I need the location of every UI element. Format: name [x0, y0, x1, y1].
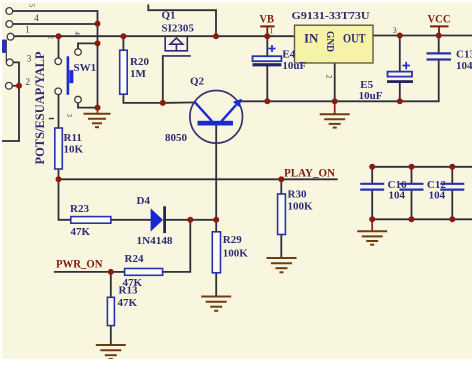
- node regulator pin2 on emitter rail: [332, 98, 338, 104]
- wire E5 bottom lead: [399, 83, 401, 101]
- wire C16 top lead: [371, 167, 373, 183]
- capacitor C14 (clipped at right edge): [440, 184, 464, 190]
- wire R23 right to D4 anode: [111, 219, 151, 221]
- svg-text:IN: IN: [304, 30, 319, 45]
- wire vertical bus to ground: [97, 24, 99, 109]
- wire C12 bottom lead: [411, 190, 413, 219]
- wire jack pin2 stub: [12, 85, 19, 87]
- capacitor E5 10uF electrolytic: [359, 62, 413, 102]
- Q1 substrate arrow head: [170, 38, 183, 44]
- ground stem below R13: [110, 344, 112, 345]
- svg-text:100K: 100K: [288, 201, 314, 213]
- svg-text:3: 3: [27, 54, 32, 64]
- svg-text:2: 2: [25, 78, 30, 88]
- svg-text:4: 4: [73, 32, 81, 36]
- node C12 top rail: [409, 164, 415, 170]
- svg-text:R30: R30: [288, 189, 307, 201]
- wire C13 top lead: [438, 36, 440, 53]
- svg-text:47K: 47K: [118, 297, 138, 309]
- wire SW1 lower-right pin to bus: [78, 103, 98, 108]
- diode D4 1N4148: [137, 195, 173, 247]
- node R30 top on PLAY_ON wire: [278, 176, 284, 182]
- wire R13 bottom to ground: [110, 326, 112, 344]
- Q1 substrate arrow stem: [175, 44, 177, 51]
- Q2 emitter arrow head: [233, 99, 242, 107]
- svg-text:OUT: OUT: [343, 31, 366, 45]
- node E5 bottom on emitter rail: [397, 98, 403, 104]
- Q1 channel bar: [164, 50, 188, 52]
- capacitor C16 104: [360, 179, 407, 202]
- Q2 base bar: [198, 121, 234, 126]
- wire C14 bottom lead: [451, 190, 453, 219]
- resistor R23: [70, 203, 111, 238]
- node C13 top on VCC rail: [436, 33, 442, 39]
- svg-text:POTS/ESUAP/YALP: POTS/ESUAP/YALP: [33, 51, 47, 164]
- wire regulator pin3 rail to VCC edge: [373, 35, 472, 37]
- ground stem below SW bus: [97, 108, 99, 114]
- wire pin4 to vertical bus: [13, 11, 98, 24]
- svg-text:PLAY_ON: PLAY_ON: [284, 166, 335, 180]
- node pin4/pin1 bus: [95, 21, 101, 27]
- power port VB: [260, 11, 275, 26]
- node Q1 drain hook on main rail: [213, 33, 219, 39]
- regulator U1 G9131-33T73U: [270, 10, 397, 79]
- node R20 top on main rail: [120, 33, 126, 39]
- wire PWR_ON stub: [55, 271, 111, 273]
- ground below SW bus: [84, 114, 111, 127]
- wire Q1 drain hook from top: [148, 5, 216, 36]
- svg-text:R20: R20: [130, 56, 149, 68]
- resistor R11: [49, 114, 84, 170]
- node R11 bottom / PLAY_ON: [56, 176, 62, 182]
- svg-text:1M: 1M: [130, 68, 147, 80]
- wire R11 bottom to node: [58, 169, 60, 179]
- node SW1 top on main rail: [56, 33, 62, 39]
- wire main rail pin3 to regulator IN: [14, 35, 295, 37]
- wire Q1 gate down: [162, 56, 164, 103]
- wire gate node to Q2 collector: [163, 101, 196, 104]
- wire pin1 horizontal: [13, 23, 98, 25]
- resistor R29: [212, 232, 248, 273]
- svg-text:Q2: Q2: [190, 75, 205, 87]
- capacitor E4 10uF electrolytic: [253, 45, 307, 72]
- wire R30 bottom to ground: [280, 235, 282, 258]
- wire Q2 base vertical: [215, 125, 217, 219]
- svg-text:VB: VB: [260, 11, 275, 25]
- wire PLAY_ON horizontal: [59, 178, 337, 180]
- node E4 bottom on emitter rail: [264, 98, 270, 104]
- svg-text:104: 104: [429, 190, 446, 202]
- switch SW1: [47, 32, 97, 103]
- wire node to R29 top: [215, 220, 217, 232]
- power port VCC: [428, 12, 451, 27]
- ground below regulator pin2: [320, 101, 350, 127]
- node Q1 gate / R20: [160, 100, 166, 106]
- svg-text:1N4148: 1N4148: [137, 235, 173, 247]
- wire R29 bottom to ground: [215, 273, 217, 296]
- svg-text:D4: D4: [137, 195, 151, 207]
- node PWR_ON / R13: [108, 269, 114, 275]
- wire SW1 lower-left pin to R11: [58, 95, 60, 129]
- R11 rotated pin digit 1 (dash): [49, 118, 54, 120]
- ground below R29: [201, 297, 231, 311]
- wire C14 top lead: [451, 167, 453, 183]
- svg-text:R29: R29: [223, 234, 242, 246]
- svg-text:10uF: 10uF: [282, 60, 306, 72]
- wire E5 top lead: [399, 36, 401, 72]
- wire C16 bottom lead: [371, 190, 373, 219]
- svg-text:10K: 10K: [64, 143, 84, 155]
- wire SW1 upper-right pin to bus: [78, 43, 98, 48]
- node D4 cathode / R24: [187, 217, 193, 223]
- svg-text:Q1: Q1: [162, 10, 176, 22]
- resistor R24: [123, 253, 163, 289]
- wire regulator pin2 down: [334, 63, 336, 101]
- connector body bracket at left edge: [2, 40, 6, 54]
- node SW1 right-bottom on bus: [95, 105, 101, 111]
- svg-text:100K: 100K: [223, 247, 249, 259]
- resistor R20: [120, 50, 150, 94]
- svg-text:5: 5: [28, 4, 36, 8]
- node VB/E4 on main rail: [264, 33, 270, 39]
- svg-text:8050: 8050: [165, 132, 188, 144]
- svg-text:104: 104: [456, 60, 472, 72]
- wire VCC stem: [438, 26, 440, 35]
- wire E4 top lead: [266, 36, 268, 56]
- wire jack node down and left off edge: [1, 86, 19, 141]
- node C14 top rail: [449, 164, 455, 170]
- svg-text:2: 2: [47, 36, 55, 40]
- wire C16 block bottom rail: [372, 218, 472, 220]
- wire SW1 upper-left pin to main rail: [58, 36, 60, 58]
- node E5 top on VCC rail: [397, 33, 403, 39]
- Q1 gate bar: [164, 55, 191, 57]
- connector J1 pin circles: [5, 8, 13, 90]
- resistor R13: [107, 285, 138, 326]
- wire VB stem: [266, 26, 268, 36]
- wire D4 cathode to nodes: [166, 219, 216, 221]
- node SW1 right-top on bus: [95, 40, 101, 46]
- node C12 bottom rail: [409, 216, 415, 222]
- wire D4 node down to R24 right: [163, 220, 191, 272]
- wire C12 top lead: [411, 167, 413, 183]
- node Q2 base / R29: [213, 217, 219, 223]
- node jack pin2/pin3: [16, 83, 22, 89]
- svg-text:47K: 47K: [71, 226, 91, 238]
- wire R20 bottom L to gate node: [123, 94, 162, 103]
- svg-text:GND: GND: [324, 31, 335, 52]
- svg-text:C13: C13: [456, 49, 472, 61]
- svg-text:SI2305: SI2305: [162, 22, 195, 34]
- wire R24 left to PWR_ON node: [111, 271, 125, 273]
- ground below R30: [267, 258, 297, 272]
- svg-text:R13: R13: [119, 285, 138, 297]
- Q1 drain tick: [186, 36, 188, 51]
- svg-text:3: 3: [393, 26, 397, 35]
- svg-text:PWR_ON: PWR_ON: [56, 256, 103, 270]
- svg-text:G9131-33T73U: G9131-33T73U: [292, 10, 370, 22]
- Q2 collector diagonal: [195, 102, 213, 121]
- Q2 emitter diagonal: [222, 105, 237, 121]
- svg-text:1: 1: [25, 25, 30, 35]
- svg-text:1: 1: [270, 27, 274, 36]
- svg-text:10uF: 10uF: [359, 90, 383, 102]
- wire R20 top lead: [122, 36, 124, 50]
- white page margins: [0, 0, 472, 3]
- svg-text:R11: R11: [64, 132, 82, 144]
- svg-text:3: 3: [65, 114, 73, 118]
- wire node to R23 left: [59, 179, 71, 220]
- wire Q2 emitter rail: [238, 60, 439, 101]
- capacitor C13 104 (clipped at right edge): [427, 49, 472, 72]
- svg-text:E5: E5: [360, 79, 373, 91]
- transistor Q2 8050 NPN: [165, 75, 243, 144]
- svg-text:VCC: VCC: [428, 12, 451, 26]
- svg-text:R24: R24: [125, 253, 144, 265]
- wire jack pin3 to pin2 node: [13, 62, 19, 85]
- wire node to R13 top: [110, 272, 112, 297]
- svg-text:E4: E4: [282, 49, 295, 61]
- transistor Q1 SI2305 P-MOSFET: [162, 10, 195, 56]
- ground below R13: [96, 345, 126, 359]
- node C16 top rail corner: [369, 164, 375, 170]
- svg-text:R23: R23: [70, 203, 89, 215]
- wire E4 bottom lead: [266, 66, 268, 101]
- wire C16 block top rail: [372, 166, 472, 168]
- Q1 source tick: [164, 36, 166, 51]
- node C14 bottom rail: [449, 216, 455, 222]
- svg-text:4: 4: [34, 14, 39, 24]
- svg-text:SW1: SW1: [74, 62, 97, 74]
- ground below C16 rail: [357, 219, 387, 244]
- wire R30 top lead: [280, 179, 282, 194]
- resistor R30: [278, 189, 313, 235]
- node C16 bottom rail: [369, 216, 375, 222]
- capacitor C12 104: [400, 179, 447, 202]
- connector body edge line: [5, 40, 7, 62]
- svg-text:2: 2: [325, 75, 334, 79]
- svg-text:104: 104: [389, 190, 406, 202]
